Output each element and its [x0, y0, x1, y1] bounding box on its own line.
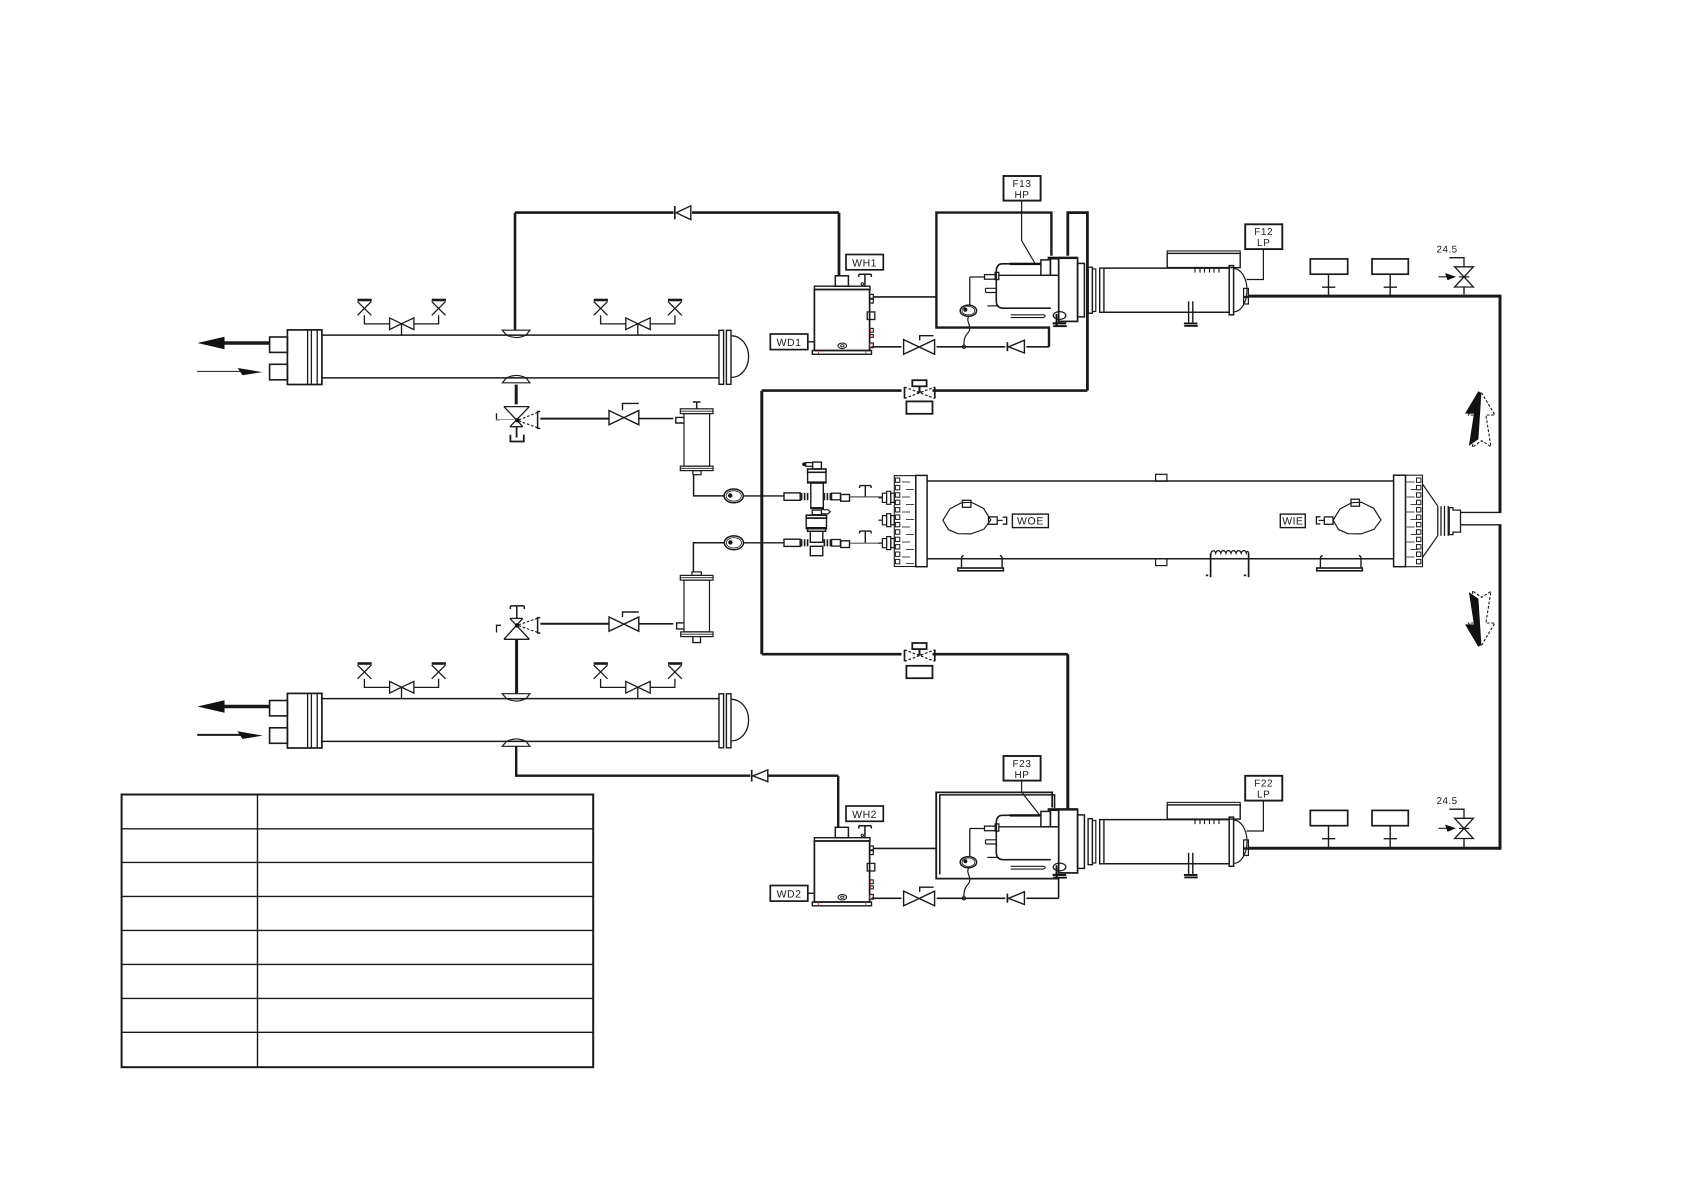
svg-text:WH1: WH1: [852, 257, 877, 269]
globe valve oil line 1: [904, 336, 935, 355]
vessel nozzle 1: [878, 491, 894, 504]
svg-text:WOE: WOE: [1017, 516, 1044, 528]
separator dome: [1234, 269, 1247, 312]
suction channel unit 1: [1068, 213, 1088, 391]
3-way expansion feed valve TW2: [497, 606, 541, 639]
compressor/separator unit 2 (reuse, lower position): [985, 802, 1249, 878]
vessel left flange: [916, 475, 927, 566]
flow arrow up: [1465, 391, 1495, 447]
HX water nozzle stubs: [270, 337, 288, 352]
wire: FD2 outlet up and right: [693, 543, 724, 572]
globe valve oil line 2: [904, 887, 935, 906]
instrument stub 1a: [1310, 259, 1347, 296]
svg-text:WD2: WD2: [777, 889, 802, 901]
svg-text:F13: F13: [1012, 179, 1031, 190]
filter drier FD1 inlet elbow: [676, 417, 685, 423]
service globe valve A: [390, 318, 414, 330]
compressor 2 internal suction pipe: [970, 829, 985, 857]
vessel top tab: [1156, 474, 1167, 481]
compressor lower stub: [986, 288, 997, 292]
service angle valve A1: [358, 299, 372, 302]
wire: HX2 bottom nozzle to suction header 2: [516, 746, 838, 827]
thermo probe T1: [860, 486, 872, 497]
svg-text:LP: LP: [1257, 238, 1270, 249]
wire: oil sight glass drain 2: [964, 868, 970, 897]
service angle valve B2: [668, 299, 682, 302]
svg-text:WD1: WD1: [777, 337, 802, 349]
wire: discharge header 2: [1248, 847, 1500, 850]
instrument stub 1b: [1372, 259, 1408, 296]
wire: SG1 to expansion valve 1: [743, 495, 784, 497]
expansion valve EX1: [802, 462, 830, 529]
check valve lower header: [751, 770, 753, 782]
wire: suction drop to compressor 2: [1066, 654, 1069, 808]
service angle valve B1: [594, 299, 608, 302]
wire: right main riser: [1499, 295, 1502, 850]
wire: drop to WH1 tank: [838, 213, 841, 276]
vessel bottom tab: [1156, 559, 1167, 566]
oil separator shell: [1104, 268, 1229, 312]
wire: oil line 2: [872, 897, 1059, 899]
vessel left tube sheet: [894, 476, 916, 567]
instrument stub 2a: [1310, 810, 1347, 848]
svg-text:F22: F22: [1254, 779, 1273, 790]
service angle valve A2: [432, 299, 446, 302]
wire: suction header top: [515, 211, 839, 214]
expansion valve EX1 right fitting: [824, 493, 849, 501]
check valve oil line 1: [1007, 340, 1024, 353]
shut-off valve on liquid line 1: [609, 411, 639, 425]
wire: oil return riser 2: [1058, 879, 1060, 899]
filter drier FD2: [680, 572, 713, 643]
instrument stub 2b: [1372, 810, 1408, 848]
wire: valve to filter drier 1: [639, 418, 674, 420]
svg-text:F23: F23: [1012, 759, 1031, 770]
junction dot oil line 1: [962, 345, 965, 348]
sight glass SG2: [724, 536, 743, 550]
arrow in (water inlet, points right): [197, 370, 246, 372]
vessel heater element: [1206, 551, 1249, 578]
wire: discharge header 1: [1248, 295, 1500, 298]
sight glass SG1: [724, 489, 743, 503]
label WD1: [770, 334, 814, 350]
vessel nozzle 3: [878, 537, 894, 550]
enclosure unit 1: [936, 213, 1051, 347]
separator mounting rail: [1167, 251, 1240, 254]
vessel right tube sheet: [1406, 475, 1423, 567]
filter drier FD2 inlet elbow: [677, 623, 685, 629]
wire: oil sight glass drain 1: [964, 316, 970, 345]
expansion valve EX2 right fitting: [824, 539, 849, 547]
separator support leg: [1189, 301, 1193, 322]
check valve top header: [674, 206, 676, 219]
wire: hot-gas header 1: [762, 389, 1088, 392]
HX shell: [322, 335, 719, 378]
check valve oil line 2: [1007, 892, 1024, 905]
svg-text:LP: LP: [1257, 790, 1270, 801]
label F23 HP: [1004, 756, 1041, 816]
junction dot oil line 2: [962, 897, 965, 900]
wire: oil return riser 1: [1048, 328, 1050, 347]
relief valve RV2: [1437, 796, 1474, 848]
WIE level sensor: [1316, 499, 1381, 534]
wire: TW2 down to HX2 top nozzle: [515, 639, 518, 694]
bottom refrigerant nozzle: [502, 378, 530, 383]
label F13 HP: [1004, 176, 1041, 263]
label WH2: [846, 806, 883, 821]
coupling rings: [1088, 267, 1092, 313]
wire: HX1 bottom nozzle drop: [515, 385, 518, 405]
vessel nozzle 2: [878, 514, 894, 527]
vessel saddle left: [958, 555, 1004, 570]
wire: vessel stub pipe to main riser: [1461, 512, 1502, 524]
wire: suction stub WH2 to enclosure: [873, 847, 936, 849]
expansion valve EX1 left fitting: [784, 493, 808, 500]
WOE level sensor: [943, 500, 1007, 534]
wire: SG2 to expansion valve 2: [744, 542, 785, 544]
vessel outlet cone: [1423, 484, 1438, 558]
compressor bearing blocks: [1041, 260, 1051, 275]
3-way expansion feed valve TW1: [497, 407, 541, 442]
motorized valve MV2: [905, 643, 935, 678]
arrow out (water outlet, points left): [216, 341, 270, 344]
expansion valve EX2: [808, 529, 826, 556]
separator right flange: [1229, 266, 1233, 315]
wire: hot-gas header 2: [762, 653, 1068, 656]
vessel outlet coupling: [1438, 506, 1461, 536]
shut-off valve on liquid line 2: [609, 617, 639, 631]
service globe valve B: [626, 318, 650, 330]
vessel right flange: [1394, 475, 1406, 567]
enclosure unit 2 inner: [940, 795, 1055, 875]
label F22 LP: [1245, 776, 1282, 831]
wire: EX1 outlet to vessel nozzle 1: [850, 496, 883, 498]
heat exchanger 2 (reuse of module, lower position): [197, 664, 749, 749]
table row lines: [122, 829, 594, 1033]
label F12 LP: [1245, 224, 1282, 279]
oil tank WH2 (reuse): [812, 826, 875, 906]
oil sight glass unit 2: [960, 857, 976, 868]
svg-text:24.5: 24.5: [1437, 796, 1458, 807]
wire: center riser: [760, 391, 763, 655]
table column divider: [257, 795, 259, 1068]
HX right flange rings: [719, 330, 724, 384]
table frame: [122, 795, 594, 1068]
enclosure unit 2 outer: [936, 792, 1058, 878]
thermo probe T2: [860, 531, 872, 543]
compressor oil slot: [1011, 315, 1046, 318]
compressor motor housing: [996, 264, 1051, 308]
compressor suction stub: [985, 275, 996, 280]
label WD2: [770, 886, 814, 902]
oil separator left cap: [1100, 268, 1104, 312]
svg-text:F12: F12: [1254, 227, 1273, 238]
svg-text:HP: HP: [1014, 770, 1029, 781]
wire: FD1 outlet down and right: [694, 475, 725, 496]
vessel saddle right: [1317, 555, 1363, 570]
filter drier FD1: [680, 402, 713, 475]
wire: TW1 to shut-off valve: [540, 418, 609, 420]
oil tank WH1: [812, 274, 875, 354]
svg-text:24.5: 24.5: [1437, 244, 1458, 255]
wire: TW2 to shut-off valve 2: [540, 623, 609, 625]
flow arrow down: [1465, 591, 1495, 647]
svg-text:WH2: WH2: [852, 809, 877, 821]
svg-text:HP: HP: [1014, 190, 1029, 201]
wire: oil line 1: [872, 346, 1050, 348]
WIE label: [1280, 514, 1305, 528]
expansion valve EX2 left fitting: [784, 539, 808, 546]
motorized valve MV1: [905, 380, 935, 414]
HX head block: [287, 330, 322, 385]
wire: EX2 outlet to vessel nozzle 3: [850, 542, 883, 544]
vessel shell: [927, 481, 1394, 559]
compressor sight glass: [1053, 312, 1066, 320]
wire: valve to filter drier 2: [639, 623, 674, 625]
wire: suction stub WH1 to enclosure: [873, 296, 936, 298]
arrow in HX2 (heavier overlay): [198, 734, 243, 736]
label WH1: [846, 255, 883, 270]
svg-text:WIE: WIE: [1282, 516, 1303, 528]
relief valve RV1: [1437, 244, 1474, 296]
HX right dome: [732, 336, 749, 378]
top refrigerant nozzle: [502, 330, 530, 335]
wire: riser to HX1 top nozzle: [514, 213, 517, 331]
oil sight glass unit 1: [960, 305, 976, 316]
WOE label: [1012, 514, 1048, 528]
compressor 1 internal suction pipe: [970, 277, 985, 305]
